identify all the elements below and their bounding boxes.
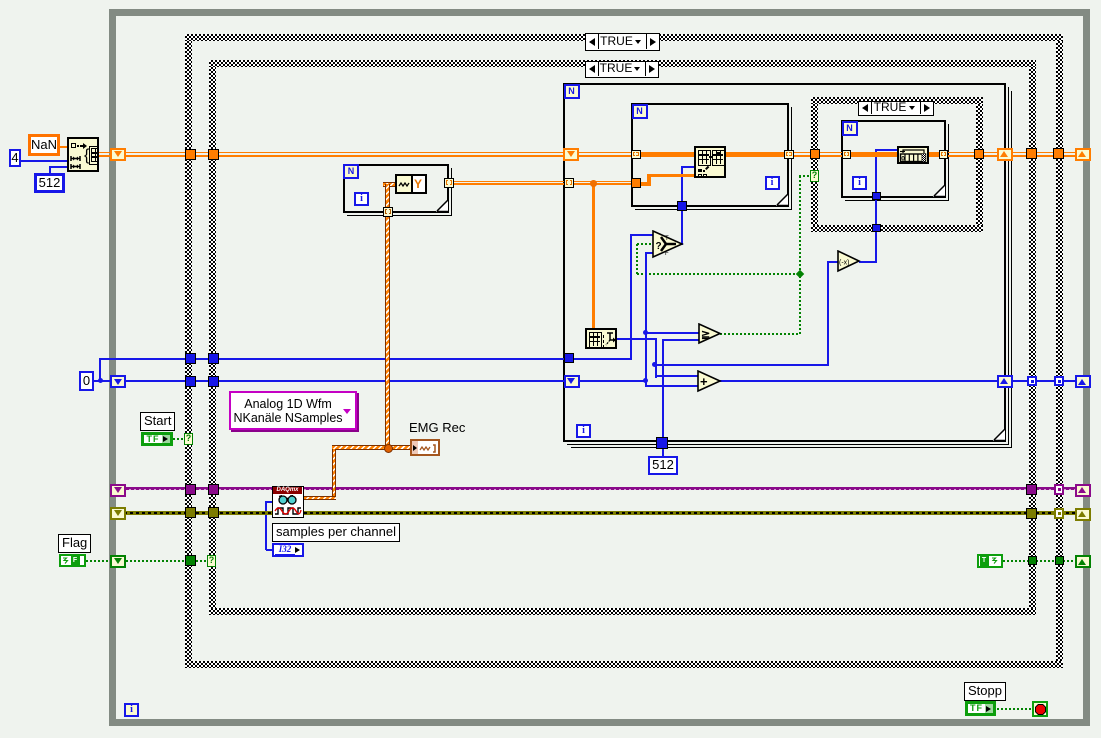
shift register orange left — [110, 148, 126, 161]
for2 count terminal N — [632, 104, 648, 119]
svg-text:(-x): (-x) — [839, 260, 850, 267]
wire 512 to tunnel — [662, 448, 664, 457]
case structure 3 left border — [811, 104, 818, 225]
junction int wire mid — [652, 362, 657, 367]
label Stopp — [964, 682, 1006, 701]
wire daqmx task purple — [124, 487, 1076, 490]
case structure 2 left border — [209, 67, 216, 608]
wire int to array subset input — [876, 149, 897, 151]
indexing tunnel for3 left — [842, 150, 851, 159]
wire Flag to case2 selector — [196, 560, 207, 562]
junction int wire at shift reg line — [643, 378, 648, 383]
wire int to >= x input — [645, 332, 699, 334]
wire >= output boolean — [720, 333, 800, 335]
tunnel boolean case1 right — [1055, 556, 1064, 565]
wire int vertical mid — [655, 338, 657, 378]
wire int negate output — [859, 261, 877, 263]
node Array Subset — [897, 146, 929, 164]
wire int to >= y input — [662, 339, 699, 341]
for loop 3 (array subset) — [841, 120, 946, 198]
tunnel error case1 left — [185, 507, 196, 518]
wire int vertical inside for3 — [875, 149, 877, 193]
tunnel purple case2 right — [1026, 484, 1037, 495]
for loop 2 (replace array subset) — [631, 103, 789, 207]
shift register error right — [1075, 508, 1091, 521]
node Greater Or Equal — [698, 323, 722, 345]
wire dbl-array main bottom line — [99, 155, 1075, 157]
svg-text:0: 0 — [901, 156, 905, 163]
wire int for2 tunnel up — [681, 166, 683, 202]
tunnel int for2 bottom — [677, 201, 687, 211]
wire i32 vertical — [265, 501, 267, 550]
indexing tunnel for2 left — [631, 150, 641, 160]
wire Flag dotted segment — [126, 560, 186, 562]
shift register purple left — [110, 484, 126, 497]
label EMG Rec — [409, 420, 469, 434]
wire int to + y input — [645, 385, 698, 387]
shift register int for loop left — [564, 375, 580, 388]
tunnel int for loop y358 — [564, 353, 574, 363]
junction waveform wire — [384, 444, 393, 453]
wire dbl-array main top line — [99, 152, 1075, 154]
wire daqmx task texture — [124, 489, 1076, 490]
tunnel int for loop bottom 512 — [656, 437, 668, 449]
case structure 3 bottom border — [811, 225, 983, 232]
for loop 1 (waveform) — [343, 164, 449, 213]
for3 iteration terminal i — [852, 176, 867, 190]
wire int 512 vertical — [662, 340, 664, 450]
node Add — [697, 370, 722, 393]
case structure 1 left border — [185, 41, 192, 661]
shift register int while right — [1075, 375, 1091, 388]
wire error olive — [124, 511, 1076, 515]
tunnel orange case1 right — [1053, 148, 1064, 159]
for loop main (outer) — [563, 83, 1006, 442]
svg-text:F: F — [665, 251, 669, 257]
tunnel orange case1 left — [185, 149, 196, 160]
case structure 2 bottom border — [209, 608, 1036, 615]
tunnel int case3 bottom — [872, 224, 881, 233]
wire Flag to shift register — [86, 560, 110, 562]
junction boolean wire — [796, 270, 804, 278]
case 2 selector label TRUE — [585, 61, 659, 78]
wire 1d-array vertical to index array — [592, 185, 595, 329]
case structure 2 top border — [209, 60, 1036, 67]
indexing tunnel for2 right — [784, 150, 794, 160]
boolean terminal Start TF — [141, 432, 173, 446]
case 3 selector label TRUE — [858, 101, 934, 116]
tunnel orange for2 left y183 — [631, 178, 641, 188]
shift register purple right — [1075, 484, 1091, 497]
wire int negate input — [827, 261, 838, 263]
tunnel int case2 right hollow — [1027, 376, 1037, 386]
wire int select t input — [630, 234, 653, 236]
enum constant Analog 1D Wfm — [229, 391, 357, 430]
tunnel purple case1 right hollow — [1054, 484, 1064, 495]
wire 1d-array for2 elbow h — [640, 182, 651, 186]
wire boolean into select — [637, 243, 653, 245]
case2 selector terminal ? — [207, 555, 216, 567]
wire int y381 right horizontal — [720, 380, 1076, 382]
tunnel error case2 right — [1026, 508, 1037, 519]
constant I32 samples — [272, 543, 304, 557]
wire green to right shift register — [1063, 560, 1075, 562]
wire int vertical case3 to for3 — [875, 200, 877, 224]
wire int select f input — [645, 252, 654, 254]
shift register boolean left — [110, 555, 126, 568]
tunnel orange case2 right — [1026, 148, 1037, 159]
wire i32 from constant — [266, 549, 272, 551]
wire int vertical to negate — [827, 261, 829, 366]
for1 iteration terminal i — [354, 192, 369, 206]
tunnel int case1 y381 — [185, 376, 196, 387]
wire Start to case1 selector — [173, 438, 184, 440]
node Negate — [837, 250, 861, 273]
wire 512 top to init array — [49, 166, 68, 168]
wire boolean to select s — [637, 273, 800, 275]
wire error dashes — [124, 512, 1076, 514]
tunnel purple case2 left — [208, 484, 219, 495]
wire int to replace subset input — [681, 166, 694, 168]
wire int select output up — [681, 211, 683, 245]
for loop iteration terminal i — [576, 424, 591, 438]
shift register error left — [110, 507, 126, 520]
wire i32 to daqmx — [265, 501, 273, 503]
node Initialize Array — [67, 137, 99, 172]
case structure 3 right border — [976, 104, 983, 225]
wire int vertical to case3 tunnel — [875, 232, 877, 262]
wire 1d-array for2 elbow v — [647, 174, 651, 186]
wire int to + x input — [655, 375, 699, 377]
wire boolean to case3 selector — [799, 175, 811, 177]
indicator EMG Rec — [410, 439, 440, 456]
while loop condition stop terminal — [1032, 701, 1048, 717]
case structure 1 top border — [185, 34, 1063, 41]
junction int wire at select f — [643, 330, 648, 335]
shift register int for loop right — [997, 375, 1013, 388]
wire waveform vertical — [385, 184, 390, 450]
shift register boolean right — [1075, 555, 1091, 568]
for1 count terminal N — [343, 164, 359, 179]
for2 iteration terminal i — [765, 176, 780, 190]
wire dbl-array inside for2 left — [640, 152, 694, 156]
wire green between tunnels — [1036, 560, 1055, 562]
shift register int while left — [110, 375, 126, 388]
shift register orange for loop left — [563, 148, 579, 161]
local variable True T — [977, 554, 1003, 568]
wire 1d-array to replace subset — [650, 174, 694, 178]
label Start — [140, 412, 175, 431]
constant 4 — [9, 149, 21, 167]
node DAQmx Read — [272, 486, 304, 518]
wire dbl-array inside for3 left — [851, 152, 897, 156]
tunnel purple case1 left — [185, 484, 196, 495]
tunnel error case1 right hollow — [1054, 508, 1064, 519]
tunnel int case2 y358 — [208, 353, 219, 364]
boolean terminal Stopp TF — [965, 701, 996, 716]
tunnel orange case3 right — [974, 149, 984, 159]
case structure 1 right border — [1056, 41, 1063, 661]
wire waveform into get-Y icon — [383, 182, 396, 187]
local variable Flag F — [59, 554, 86, 567]
tunnel int case2 y381 — [208, 376, 219, 387]
tunnel int case1 y358 — [185, 353, 196, 364]
tunnel orange case2 left — [208, 149, 219, 160]
wire 512 top vertical — [49, 167, 51, 174]
shift register orange for loop right — [997, 148, 1013, 161]
svg-text:+: + — [700, 374, 708, 389]
while loop iteration terminal i — [124, 703, 139, 717]
wire 1d-array y183 bottom line — [453, 183, 636, 185]
wire int vertical to select f — [645, 253, 647, 387]
tunnel error case2 left — [208, 507, 219, 518]
label Flag — [58, 534, 91, 553]
wire waveform to EMG Rec — [332, 445, 411, 450]
case structure 2 right border — [1029, 67, 1036, 608]
junction int wire at 0 — [98, 378, 103, 383]
wire waveform vertical from daqmx — [332, 449, 337, 498]
tunnel boolean case1 left — [185, 555, 196, 566]
wire int vertical at 0 constant — [99, 358, 101, 382]
wire dbl-array inside for2 right — [726, 152, 784, 156]
junction 1d-array wire — [590, 180, 597, 187]
for loop count terminal N — [564, 84, 580, 99]
constant 512 bottom — [648, 456, 678, 475]
wire int y358 horizontal — [100, 358, 632, 360]
indexing tunnel for1 right — [444, 178, 454, 188]
case 1 selector label TRUE — [585, 33, 660, 51]
wire 4 to init array — [21, 160, 67, 162]
svg-text:T: T — [665, 236, 669, 242]
wire int y381 left horizontal — [94, 380, 646, 382]
wire 1d-array y183 top line — [453, 181, 636, 182]
case structure 1 bottom border — [185, 661, 1063, 668]
constant NaN — [28, 134, 60, 156]
tunnel orange case3 left — [810, 149, 820, 159]
wire NaN to init array — [60, 146, 68, 148]
constant 512 top — [34, 173, 65, 193]
case structure 3 top border — [811, 97, 983, 104]
node Replace Array Subset — [694, 146, 726, 178]
constant 0 — [79, 371, 94, 391]
tunnel int for3 bottom — [872, 192, 881, 200]
node Index Array — [585, 328, 617, 349]
wire waveform from daqmx read — [304, 496, 336, 501]
node Get Waveform Y — [395, 174, 427, 194]
node Select — [652, 230, 684, 259]
wire boolean vertical to select — [636, 244, 638, 274]
indexing tunnel for loop left y183 — [564, 178, 574, 188]
tunnel int case1 right hollow — [1054, 376, 1064, 386]
case1 selector terminal ? — [184, 433, 193, 445]
wire Stopp to loop condition — [997, 708, 1032, 710]
wire True const to tunnel — [1003, 560, 1028, 562]
case3 selector terminal ? — [810, 170, 819, 182]
indexing tunnel for3 right — [939, 150, 948, 159]
wire dbl-array inside for3 right — [929, 152, 948, 156]
shift register orange right — [1075, 148, 1091, 161]
wire int from index array — [617, 338, 656, 340]
label samples per channel — [272, 523, 400, 542]
svg-text:≧: ≧ — [701, 329, 710, 341]
tunnel boolean case2 right — [1028, 556, 1037, 565]
wire boolean vertical — [799, 176, 801, 334]
for3 count terminal N — [842, 121, 858, 136]
wire int long to negate — [655, 364, 828, 366]
indexing tunnel for1 bottom — [383, 207, 393, 217]
wire int vertical to select t — [630, 234, 632, 359]
